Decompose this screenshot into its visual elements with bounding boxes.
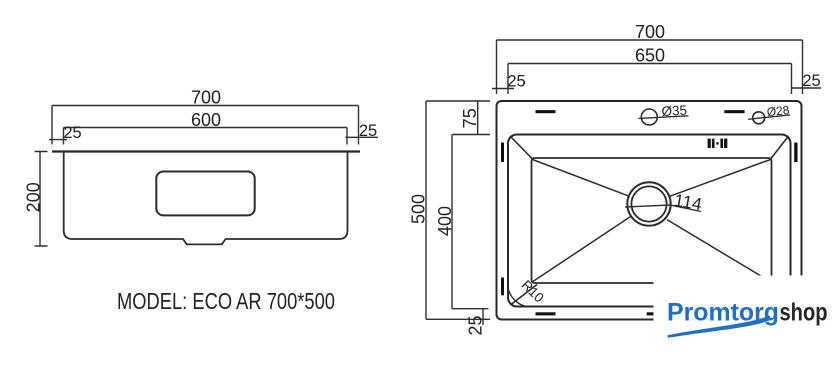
svg-text:25: 25 <box>802 72 820 90</box>
svg-text:25: 25 <box>359 122 377 140</box>
svg-text:700: 700 <box>635 22 665 42</box>
svg-text:25: 25 <box>63 124 81 142</box>
svg-text:shop: shop <box>780 299 828 327</box>
svg-text:Ø28: Ø28 <box>766 103 790 119</box>
svg-text:700: 700 <box>191 88 221 108</box>
svg-text:25: 25 <box>466 315 486 335</box>
svg-text:500: 500 <box>409 194 429 224</box>
svg-text:MODEL: ECO AR 700*500: MODEL: ECO AR 700*500 <box>117 288 335 314</box>
svg-text:75: 75 <box>460 108 480 128</box>
svg-text:25: 25 <box>507 73 525 91</box>
svg-text:200: 200 <box>24 182 44 212</box>
svg-text:Ø35: Ø35 <box>661 103 687 119</box>
svg-text:600: 600 <box>191 110 221 130</box>
svg-text:650: 650 <box>635 46 665 66</box>
svg-text:400: 400 <box>435 206 455 236</box>
